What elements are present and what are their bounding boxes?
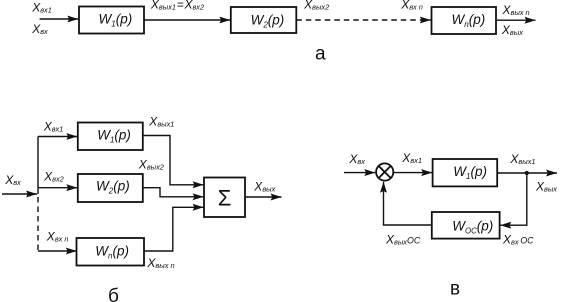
wire branch n (b) xyxy=(38,250,77,252)
block W2 (a) xyxy=(231,7,296,33)
svg-text:Xвых: Xвых xyxy=(535,180,557,194)
svg-text:Xвых: Xвых xyxy=(253,180,275,194)
wire branch 2 (b) xyxy=(38,187,77,189)
wire W2 out to summator xyxy=(143,188,204,197)
svg-text:Xвых n: Xвых n xyxy=(502,3,530,17)
wire output a xyxy=(496,19,536,21)
block W1 (b) xyxy=(78,123,143,151)
wire circle to W1 (v) xyxy=(394,172,432,174)
wire trunk dashed (b) xyxy=(37,197,39,251)
wire W1 out to summator xyxy=(143,136,204,185)
svg-text:Xвых1: Xвых1 xyxy=(509,152,535,166)
svg-text:Xвых: Xвых xyxy=(501,23,523,37)
block Wn (a) xyxy=(432,7,497,34)
wire input v xyxy=(344,172,375,174)
wire W1 to W2 (a) xyxy=(144,19,230,21)
junction dot (v) xyxy=(525,171,529,175)
svg-text:Xвх n: Xвх n xyxy=(46,230,69,244)
wire feedback return to circle xyxy=(384,182,432,225)
svg-text:Xвх1: Xвх1 xyxy=(31,0,52,14)
svg-text:Xвх: Xвх xyxy=(348,152,365,166)
block W1 (v) xyxy=(433,159,498,186)
svg-text:Xвых2: Xвых2 xyxy=(138,157,164,171)
svg-text:а: а xyxy=(315,44,326,65)
wire feedback down into Woc xyxy=(500,173,527,225)
svg-text:Xвх: Xвх xyxy=(31,22,48,36)
svg-text:Xвх2: Xвх2 xyxy=(43,170,64,184)
svg-text:W2(p): W2(p) xyxy=(96,179,130,196)
svg-text:б: б xyxy=(108,286,119,302)
wire main input b xyxy=(2,193,37,195)
svg-text:Xвх n: Xвх n xyxy=(400,0,423,12)
svg-text:Wn(p): Wn(p) xyxy=(452,12,486,29)
svg-text:W1(p): W1(p) xyxy=(99,12,133,29)
svg-text:Xвх: Xвх xyxy=(4,173,21,187)
svg-text:Xвых1: Xвых1 xyxy=(148,114,174,128)
wire input a xyxy=(40,18,79,20)
wire output v xyxy=(497,172,557,174)
svg-text:Xвх ОС: Xвх ОС xyxy=(502,233,534,247)
block W2 (b) xyxy=(78,174,143,202)
block Woc xyxy=(432,212,500,239)
svg-text:W1(p): W1(p) xyxy=(453,164,487,181)
wire branch 1 (b) xyxy=(38,136,77,138)
dashed wire W2 to Wn (a) xyxy=(296,19,431,21)
svg-text:Xвых1=Xвх2: Xвых1=Xвх2 xyxy=(150,0,204,11)
svg-text:XвыхОС: XвыхОС xyxy=(385,232,421,246)
block W1 (a) xyxy=(79,7,144,34)
svg-text:W1(p): W1(p) xyxy=(97,128,131,145)
svg-text:Xвх1: Xвх1 xyxy=(401,151,422,165)
wire summator output xyxy=(245,196,282,198)
svg-text:W2(p): W2(p) xyxy=(251,12,285,29)
svg-text:Wn(p): Wn(p) xyxy=(95,243,129,260)
summing junction circle xyxy=(376,163,393,180)
svg-text:Xвх1: Xвх1 xyxy=(43,120,64,134)
block Wn (b) xyxy=(77,238,145,266)
summator block xyxy=(204,178,245,218)
svg-text:в: в xyxy=(450,278,460,299)
svg-text:Σ: Σ xyxy=(218,185,232,210)
svg-text:Xвых2: Xвых2 xyxy=(303,0,329,12)
wire trunk solid (b) xyxy=(37,137,39,195)
wire Wn out to summator xyxy=(144,207,204,251)
svg-text:Xвых n: Xвых n xyxy=(146,256,174,270)
